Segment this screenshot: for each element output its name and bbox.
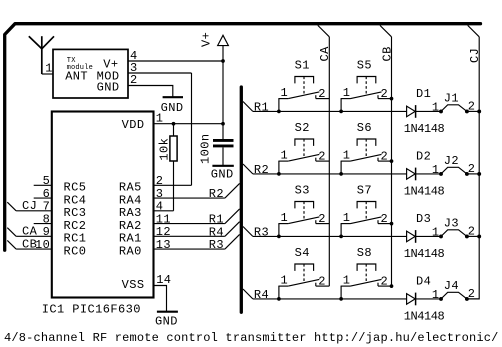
svg-text:S1: S1 (295, 59, 310, 73)
diode D2 1N4148 (407, 168, 416, 181)
svg-text:1N4148: 1N4148 (404, 247, 445, 261)
junction S7 pin1 / row (339, 235, 343, 239)
junction J3 pin1 (439, 234, 443, 238)
bus entry CJ (7, 202, 16, 211)
switch S8 (341, 264, 392, 299)
capacitor C1 100n (213, 140, 234, 146)
svg-text:10k: 10k (157, 138, 171, 161)
svg-text:S6: S6 (357, 121, 372, 135)
bus R (R1-R4) vertical middle (240, 87, 243, 312)
TX module U2 body (53, 49, 128, 98)
svg-text:R3: R3 (254, 226, 269, 240)
wire MOD to IC pin2 (154, 184, 192, 186)
svg-text:1: 1 (343, 148, 351, 162)
svg-text:V+: V+ (200, 32, 214, 47)
svg-text:S8: S8 (357, 246, 372, 260)
svg-text:1: 1 (156, 111, 164, 125)
bus entry CA (7, 228, 16, 237)
wire CJ (IC pin 7) (16, 210, 52, 212)
svg-text:1: 1 (281, 148, 289, 162)
svg-text:CB: CB (22, 238, 37, 252)
svg-text:VDD: VDD (122, 118, 145, 132)
svg-text:S2: S2 (295, 121, 310, 135)
junction VDD/resistor (172, 122, 176, 126)
svg-text:D1: D1 (416, 87, 431, 101)
svg-text:13: 13 (156, 238, 171, 252)
svg-text:1N4148: 1N4148 (404, 310, 445, 324)
wire MOD vertical (191, 73, 193, 185)
switch S5 (341, 77, 392, 112)
svg-text:S4: S4 (295, 246, 310, 260)
bus entry CB (7, 240, 16, 249)
svg-text:10: 10 (35, 238, 50, 252)
bus exit R1 (243, 102, 253, 112)
wire VDD (IC pin1 to V+) (154, 123, 224, 125)
wire row R2 (253, 173, 407, 175)
junction S4 pin1 / row (277, 297, 281, 301)
wire CB (IC pin 10) (16, 248, 52, 250)
svg-text:J3: J3 (444, 217, 459, 231)
resistor R5 10k (170, 124, 177, 211)
junction J4 pin2 (465, 297, 469, 301)
wire R4 (IC pin 12) (154, 235, 225, 237)
bus entry CA top (318, 25, 330, 36)
svg-text:ANT: ANT (65, 69, 88, 83)
wire stub pin 8 (34, 223, 52, 225)
junction S5 pin2 / column (390, 97, 394, 101)
wire resistor to IC pin4 (154, 210, 174, 212)
svg-text:1: 1 (432, 163, 440, 177)
junction VDD/V+ (221, 122, 225, 126)
svg-text:1: 1 (432, 226, 440, 240)
svg-text:GND: GND (97, 80, 120, 94)
svg-text:1: 1 (281, 273, 289, 287)
svg-text:RC0: RC0 (64, 244, 87, 258)
svg-text:2: 2 (381, 150, 389, 164)
junction S3 pin1 / row (277, 235, 281, 239)
svg-text:GND: GND (155, 315, 178, 329)
junction S5 pin1 / row (339, 110, 343, 114)
svg-text:1: 1 (343, 86, 351, 100)
wire TX pin4 to V+ (128, 60, 223, 62)
wire TX pin3 MOD (128, 72, 192, 74)
switch S6 (341, 139, 392, 174)
svg-text:1: 1 (432, 288, 440, 302)
svg-text:CJ: CJ (22, 199, 37, 213)
svg-text:2: 2 (381, 275, 389, 289)
switch S3 (278, 202, 329, 237)
bus entry CB top (380, 25, 392, 36)
wire J4 to CJ (467, 298, 479, 300)
svg-text:J4: J4 (444, 279, 459, 293)
wire D1 cathode to J1 (416, 110, 441, 112)
switch S2 (278, 139, 329, 174)
svg-text:GND: GND (161, 101, 184, 115)
ground GND (TX) (163, 96, 183, 98)
wire row R4 (253, 298, 407, 300)
svg-text:1N4148: 1N4148 (404, 122, 445, 136)
junction J4 pin1 (439, 297, 443, 301)
junction S7 pin2 / column (390, 222, 394, 226)
wire VSS to GND (154, 286, 167, 312)
wire D4 cathode to J4 (416, 298, 441, 300)
svg-text:S7: S7 (357, 184, 372, 198)
svg-text:VSS: VSS (122, 278, 145, 292)
ground GND (C1) (212, 165, 233, 167)
svg-text:2: 2 (318, 275, 326, 289)
switch S4 (278, 264, 329, 299)
wire D3 cathode to J3 (416, 235, 441, 237)
bus entry CJ top (468, 25, 480, 36)
bus entry R4 left (225, 222, 240, 237)
wire stub pin 6 (34, 197, 52, 199)
wire row R1 (253, 110, 407, 112)
svg-text:1: 1 (343, 273, 351, 287)
V+ supply symbol (218, 35, 229, 45)
svg-text:1: 1 (432, 101, 440, 115)
svg-text:1: 1 (343, 211, 351, 225)
svg-text:J2: J2 (444, 154, 459, 168)
svg-text:1N4148: 1N4148 (404, 185, 445, 199)
svg-text:S3: S3 (295, 184, 310, 198)
bus exit R2 (243, 164, 253, 174)
wire column CB (391, 37, 393, 286)
junction V+ / pin4 (221, 59, 225, 63)
svg-text:2: 2 (318, 87, 326, 101)
jumper J1 (441, 105, 467, 112)
bus entry R3 left (225, 234, 240, 249)
junction S8 pin2 / column (390, 284, 394, 288)
junction J2 pin2 (465, 172, 469, 176)
junction J1 pin2 (465, 109, 469, 113)
svg-text:2: 2 (381, 87, 389, 101)
svg-text:J1: J1 (444, 92, 459, 106)
junction S8 pin1 / row (339, 297, 343, 301)
svg-text:CJ: CJ (468, 48, 482, 63)
wire R3 (IC pin 13) (154, 248, 225, 250)
svg-text:CA: CA (318, 46, 332, 62)
junction S1 pin1 / row (277, 110, 281, 114)
wire R2 (IC pin 3) (154, 197, 225, 199)
svg-text:1: 1 (281, 86, 289, 100)
svg-text:IC1 PIC16F630: IC1 PIC16F630 (42, 303, 141, 317)
wire R1 (IC pin 11) (154, 223, 225, 225)
junction J3 pin2 (465, 234, 469, 238)
wire row R3 (253, 235, 407, 237)
svg-text:RA0: RA0 (119, 244, 142, 258)
wire J2 to CJ (467, 173, 479, 175)
svg-text:R1: R1 (254, 101, 269, 115)
svg-text:GND: GND (211, 168, 234, 182)
svg-text:D3: D3 (416, 212, 431, 226)
bus exit R3 (243, 227, 253, 237)
wire TX pin2 to GND (128, 86, 173, 97)
antenna (29, 36, 54, 74)
bus entry R1 left (225, 209, 240, 224)
ground GND (VSS) (157, 311, 178, 313)
svg-text:D2: D2 (416, 149, 431, 163)
svg-text:2: 2 (318, 212, 326, 226)
junction S6 pin1 / row (339, 172, 343, 176)
wire stub pin 5 (34, 184, 52, 186)
junction CJ / row R1 (477, 109, 481, 113)
jumper J4 (441, 292, 467, 299)
junction J1 pin1 (439, 109, 443, 113)
wire V+ vertical (222, 46, 224, 140)
svg-text:2: 2 (318, 150, 326, 164)
svg-text:R3: R3 (209, 238, 224, 252)
svg-text:S5: S5 (357, 59, 372, 73)
bus exit R4 (243, 289, 253, 299)
jumper J3 (441, 230, 467, 237)
junction J2 pin1 (439, 172, 443, 176)
wire column CA (328, 37, 330, 286)
switch S1 (278, 77, 329, 112)
junction CJ / row R3 (477, 234, 481, 238)
wire J1 to CJ (467, 110, 479, 112)
svg-text:R2: R2 (254, 163, 269, 177)
wire capacitor to GND (222, 147, 224, 165)
diode D3 1N4148 (407, 230, 416, 243)
svg-text:1: 1 (45, 62, 53, 76)
junction S6 pin2 / column (390, 159, 394, 163)
IC U1 PIC16F630 body (52, 112, 154, 298)
svg-text:D4: D4 (416, 274, 431, 288)
svg-text:R4: R4 (254, 288, 269, 302)
wire D2 cathode to J2 (416, 173, 441, 175)
switch S7 (341, 202, 392, 237)
junction CJ / row R2 (477, 172, 481, 176)
bus C (CA/CB/CJ) along left and top edges (5, 24, 481, 251)
diode D1 1N4148 (407, 105, 416, 118)
wire column CJ (467, 37, 479, 299)
svg-text:14: 14 (156, 273, 171, 287)
junction S2 pin1 / row (277, 172, 281, 176)
wire CA (IC pin 9) (16, 235, 52, 237)
svg-text:1: 1 (281, 211, 289, 225)
svg-text:R2: R2 (209, 187, 224, 201)
svg-text:4/8-channel RF remote control: 4/8-channel RF remote control transmitte… (4, 331, 499, 345)
svg-text:2: 2 (130, 73, 138, 87)
wire antenna to TX ANT pin 1 (42, 73, 53, 75)
svg-text:2: 2 (381, 212, 389, 226)
jumper J2 (441, 167, 467, 174)
svg-text:100n: 100n (198, 134, 212, 165)
svg-text:CB: CB (380, 46, 394, 61)
bus entry R2 left (225, 183, 240, 198)
wire J3 to CJ (467, 235, 479, 237)
diode D4 1N4148 (407, 293, 416, 306)
